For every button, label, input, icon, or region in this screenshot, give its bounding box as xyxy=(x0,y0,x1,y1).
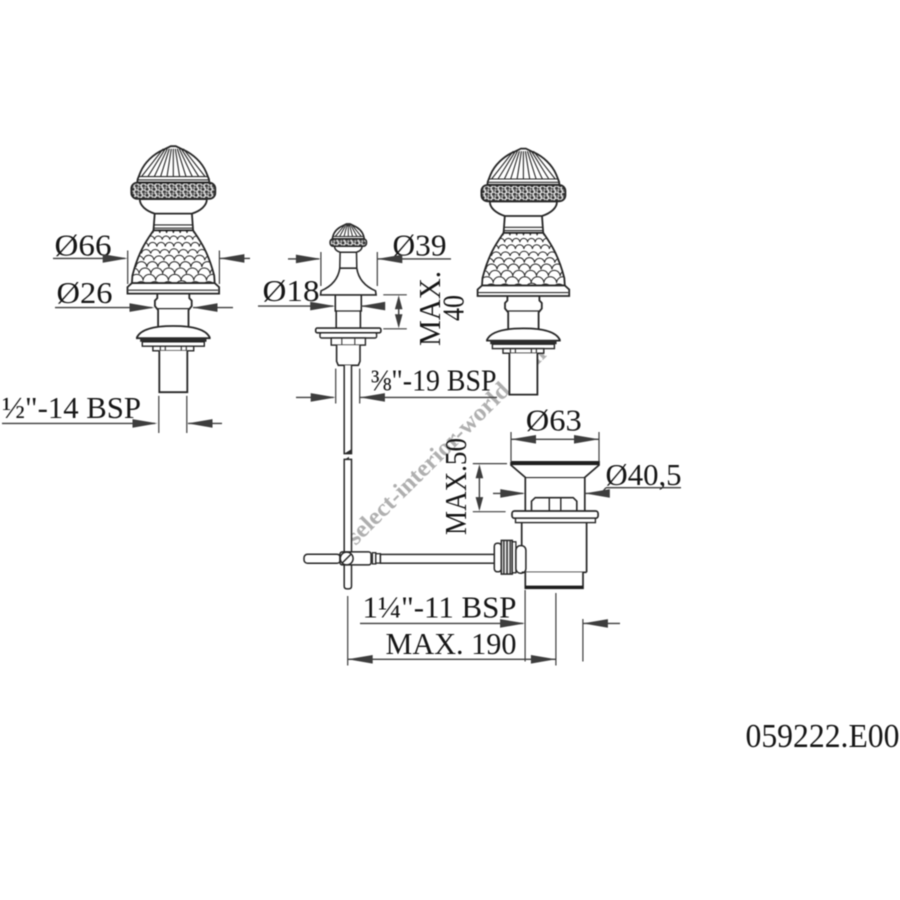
pop-up washer 2 xyxy=(320,333,377,338)
svg-text:½"-14 BSP: ½"-14 BSP xyxy=(2,390,141,425)
pop-up nut xyxy=(331,338,365,345)
threaded shank xyxy=(159,351,187,392)
watermark select-interior-world.com xyxy=(342,342,552,551)
horizontal pivot rod left xyxy=(304,554,341,563)
handle shoulder xyxy=(490,202,557,217)
handle base rim xyxy=(128,283,220,294)
handle base rim xyxy=(478,286,570,297)
mounting nut xyxy=(503,349,544,354)
right tap handle xyxy=(471,149,595,395)
svg-text:Ø40,5: Ø40,5 xyxy=(606,457,682,492)
handle shoulder xyxy=(140,199,207,214)
escutcheon lower ring xyxy=(142,342,204,346)
pop-up knob skirt xyxy=(340,267,357,269)
svg-text:⅜"-19 BSP: ⅜"-19 BSP xyxy=(371,363,497,398)
svg-text:1¼"-11 BSP: 1¼"-11 BSP xyxy=(363,590,517,625)
svg-text:40: 40 xyxy=(436,295,471,321)
handle crystal dome xyxy=(137,146,209,182)
left tap handle xyxy=(121,146,245,392)
svg-text:MAX.50: MAX.50 xyxy=(438,438,473,535)
handle knurled band xyxy=(131,183,215,199)
threaded shank xyxy=(509,353,537,394)
lift rod lower segment xyxy=(344,459,351,589)
pop-up knob shoulder xyxy=(335,246,363,252)
handle stem xyxy=(505,296,542,329)
svg-text:059222.E00: 059222.E00 xyxy=(746,718,900,755)
coupling bullet xyxy=(516,546,526,574)
clamp screw xyxy=(340,552,353,565)
waste collar flange xyxy=(512,511,598,518)
escutcheon lower ring xyxy=(492,344,554,348)
svg-text:MAX. 190: MAX. 190 xyxy=(386,626,517,661)
waste plug xyxy=(532,498,577,511)
handle crystal dome xyxy=(487,149,559,185)
pop-up waste knob assembly xyxy=(316,223,381,365)
dimension MAX.50 xyxy=(438,438,473,535)
handle escutcheon flange xyxy=(137,326,210,338)
handle knurled band xyxy=(481,185,565,201)
dimension MAX. 40 xyxy=(412,271,447,346)
escutcheon dark ring xyxy=(490,341,556,345)
waste body xyxy=(522,523,587,573)
handle neck xyxy=(154,214,194,231)
lift rod upper segment xyxy=(344,365,351,453)
pop-up knob neck xyxy=(340,252,357,268)
escutcheon dark ring xyxy=(140,338,206,342)
horizontal ball rod xyxy=(380,554,495,563)
knurled coupling cap xyxy=(494,543,501,572)
pop-up washer xyxy=(316,328,381,333)
knurled coupling xyxy=(501,540,512,574)
mounting nut xyxy=(153,346,194,351)
pop-up knob stem xyxy=(335,295,361,328)
pop-up threaded body xyxy=(337,345,360,365)
handle escutcheon flange xyxy=(487,328,560,340)
handle neck xyxy=(504,216,544,233)
handle stem xyxy=(155,294,192,327)
linkage collar xyxy=(372,553,375,564)
svg-text:Ø63: Ø63 xyxy=(526,403,582,438)
pop-up knob knurled band xyxy=(330,239,366,246)
svg-text:Ø26: Ø26 xyxy=(57,275,113,310)
waste collar lip xyxy=(516,518,596,522)
pop-up knob crystal dome xyxy=(332,224,364,239)
waste funnel top flange xyxy=(511,462,599,511)
clamp block xyxy=(340,552,371,565)
waste tailpiece xyxy=(525,572,583,588)
